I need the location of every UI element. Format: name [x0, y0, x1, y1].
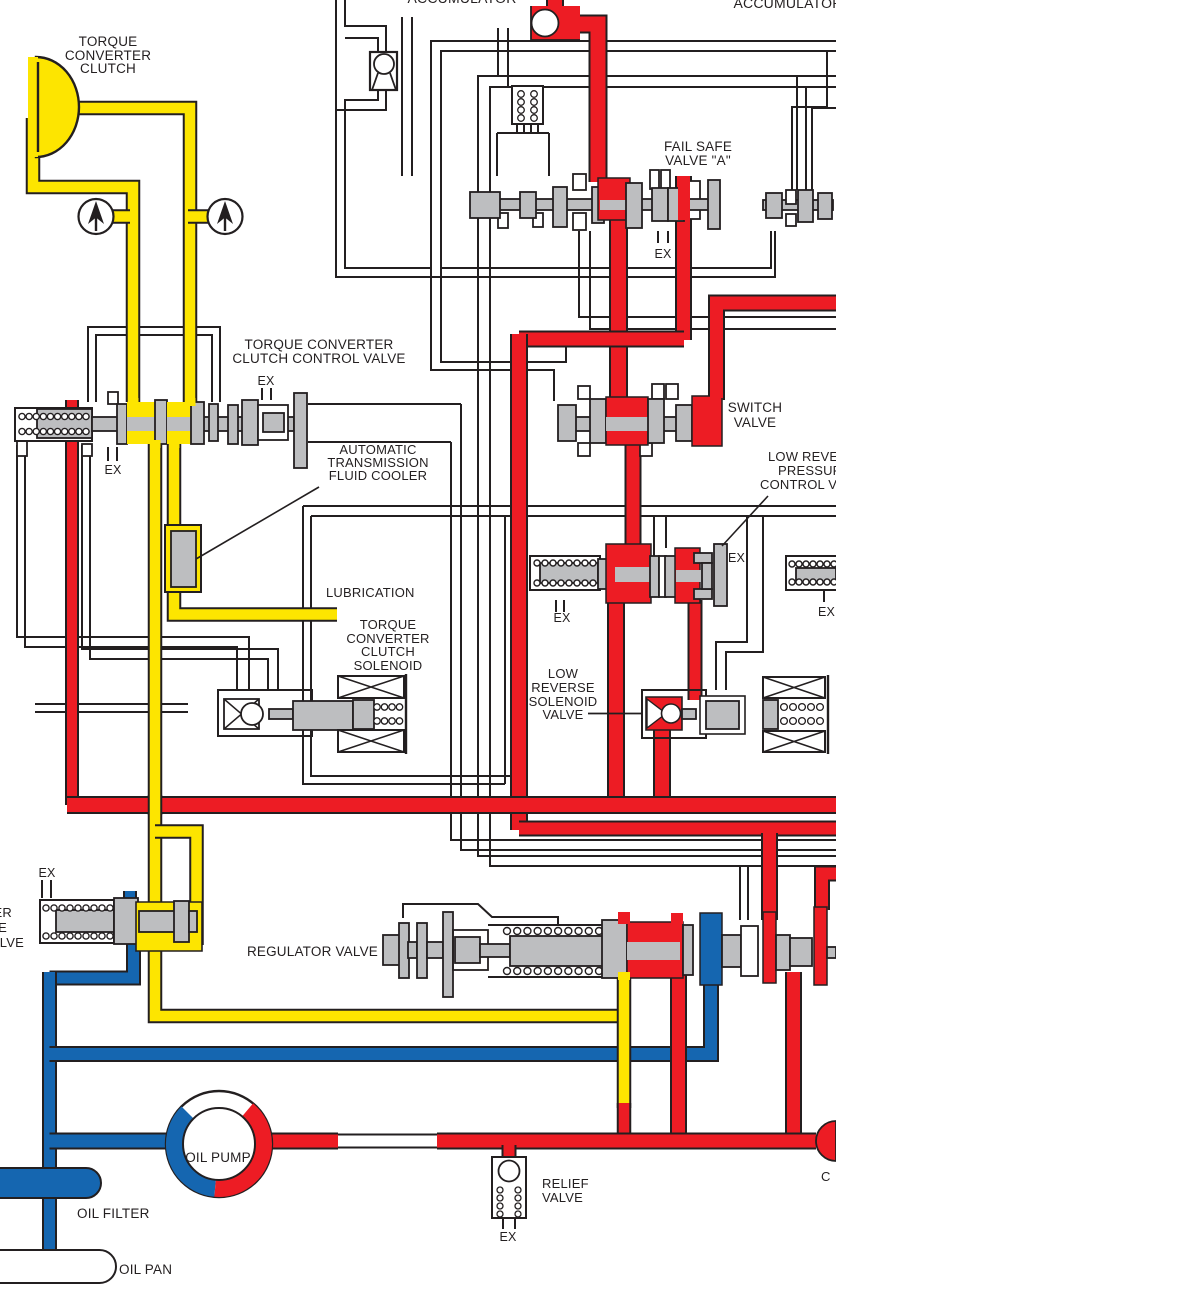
svg-text:CLUTCH: CLUTCH	[80, 61, 136, 76]
wire: red switch valve to low reverse pressure control valve	[625, 444, 642, 555]
svg-text:REGULATOR VALVE: REGULATOR VALVE	[247, 944, 378, 959]
wire: red below low reverse solenoid valve to main line	[653, 728, 671, 806]
yellow pocket 2 of TCC control valve	[167, 402, 192, 444]
wire: big box around lubrication / solenoid area	[303, 505, 836, 507]
svg-text:LUBRICATION: LUBRICATION	[326, 585, 415, 600]
svg-text:C: C	[821, 1169, 831, 1184]
yellow pocket 1 of TCC control valve	[127, 402, 155, 444]
svg-text:EX: EX	[553, 611, 571, 625]
wire: red regulator valve to bottom converter feed line	[670, 974, 687, 1141]
svg-text:LVE: LVE	[0, 935, 24, 950]
flow direction symbol (circle with up arrow)	[79, 199, 114, 234]
wire: stub to flow symbol 1	[112, 209, 130, 224]
svg-text:OIL PAN: OIL PAN	[119, 1262, 172, 1277]
valve: low reverse pressure control valve	[530, 556, 600, 590]
valve: low reverse solenoid valve	[642, 690, 706, 738]
wire: pipe from fail-safe valve down then right to edge	[579, 231, 836, 317]
wire: spring symbol legs	[516, 124, 518, 133]
leader line to cooler	[196, 487, 319, 559]
wire: hanging pipe lines down to regulator valve area	[451, 442, 836, 840]
svg-text:ER: ER	[0, 905, 12, 920]
svg-text:VALVE "A": VALVE "A"	[665, 153, 731, 168]
automatic transmission fluid cooler	[165, 525, 201, 592]
EX ticks of converter limit valve	[41, 880, 43, 898]
wire: black tick under main red line	[210, 809, 350, 812]
wire: white pipe from check ball block down left side of fail-safe area	[401, 17, 403, 176]
leader line to low reverse pressure control valve	[722, 496, 768, 546]
oil filter	[0, 1168, 101, 1198]
svg-text:VALVE: VALVE	[734, 415, 777, 430]
solenoid coil of low reverse solenoid	[763, 677, 825, 698]
blue pocket of regulator valve	[700, 913, 722, 985]
svg-text:E: E	[0, 920, 7, 935]
torque converter clutch (yellow semicircle)	[36, 57, 79, 157]
wire: yellow cooler loop from control valve	[167, 440, 182, 530]
wire: bottom converter feed red line from oil pump	[264, 1133, 338, 1150]
svg-text:LOW: LOW	[548, 666, 579, 681]
wire: pipe from red check-ball block down (jog)	[497, 28, 499, 76]
wire: red horizontal link and long vertical to 2nd bottom line	[519, 331, 684, 348]
wire: main red line pressure horizontal	[67, 796, 836, 814]
svg-text:EX: EX	[728, 551, 746, 565]
wire: pipe from low reverse solenoid up to box lines	[716, 517, 747, 690]
wire: stub to flow symbol 2	[188, 209, 209, 224]
wire: red feed to switch valve from right edge	[717, 303, 837, 400]
check ball in red block (top)	[531, 6, 580, 40]
svg-text:CLUTCH: CLUTCH	[361, 644, 415, 659]
wire: red low reverse control valve to main line	[607, 600, 625, 806]
svg-text:TORQUE: TORQUE	[79, 34, 138, 49]
wire: red from fail safe valve (right port) down	[675, 176, 692, 340]
svg-text:EX: EX	[104, 463, 122, 477]
wire: red elbow from right edge into regulator valve	[822, 874, 836, 911]
wire: port connector lines above LR control valve	[653, 517, 655, 556]
valve: pressure regulator valve	[383, 935, 400, 965]
wire: accumulator feed pipe with converter check valve bypass loop (top left)	[336, 0, 775, 277]
svg-text:FLUID COOLER: FLUID COOLER	[329, 468, 427, 483]
valve: switch valve spool	[578, 386, 590, 399]
EX ticks below LR control valve spring	[555, 600, 557, 612]
wire: stepped outline above regulator valve	[403, 904, 558, 924]
svg-text:FAIL SAFE: FAIL SAFE	[664, 139, 732, 154]
svg-text:ACCUMULATOR: ACCUMULATOR	[733, 0, 842, 11]
wire: connector from regulator valve white port up	[739, 866, 741, 920]
wire: pipes below TCC control valve going to TCC solenoid	[17, 445, 249, 690]
svg-text:OIL FILTER: OIL FILTER	[77, 1206, 150, 1221]
wire: box around TCC clutch yellow pipes above control valve	[88, 327, 220, 402]
wire: long yellow pipe from control valve down to regulator valve circuit	[155, 440, 624, 1016]
yellow frame pocket of converter limit valve	[136, 902, 202, 951]
wire: blue suction pipe from oil pan/filter to pump and regulator	[123, 891, 137, 903]
EX port of fail safe valve	[657, 231, 659, 243]
wire: yellow pipe crossing over red main line	[148, 795, 163, 815]
svg-text:CLUTCH CONTROL VALVE: CLUTCH CONTROL VALVE	[232, 351, 405, 366]
wire: red vertical at far left down from TCC control valve	[65, 400, 79, 805]
wire: white gap segment of bottom red main line	[338, 1134, 437, 1136]
yellow pipe ends over pocket outlines	[185, 398, 196, 406]
relief valve	[492, 1157, 526, 1218]
wire: red from fail safe valve down to switch valve	[609, 200, 628, 399]
svg-text:VALVE: VALVE	[542, 1190, 583, 1205]
svg-text:EX: EX	[818, 605, 836, 619]
wire: right-edge corner lines above small valve	[792, 51, 827, 190]
svg-text:OIL PUMP: OIL PUMP	[185, 1150, 251, 1165]
svg-text:EX: EX	[499, 1230, 517, 1244]
svg-text:ACCUMULATOR: ACCUMULATOR	[407, 0, 516, 6]
valve: torque converter clutch solenoid	[218, 690, 312, 736]
EX ticks of TCC control valve	[261, 388, 263, 400]
converter check valve (ball and seat symbol)	[370, 52, 397, 90]
svg-text:REVERSE: REVERSE	[531, 680, 595, 695]
converter inlet (red bulge, cut at edge)	[816, 1121, 836, 1161]
valve: accumulator spring box at right edge (cut)	[786, 556, 846, 590]
valve: torque converter clutch control valve	[108, 392, 118, 404]
wire: red low reverse control valve to solenoid valve	[688, 600, 703, 700]
svg-text:EX: EX	[38, 866, 56, 880]
wire: yellow branch to converter limit valve	[155, 832, 197, 946]
wire: second red horizontal to regulator valve	[519, 821, 836, 837]
wire: red pipe continuing yellow to bottom line	[617, 1103, 632, 1141]
svg-text:TORQUE: TORQUE	[360, 617, 417, 632]
svg-text:TORQUE CONVERTER: TORQUE CONVERTER	[245, 337, 394, 352]
valve: converter limit valve (cut label at left)	[40, 900, 114, 943]
svg-text:SWITCH: SWITCH	[728, 400, 782, 415]
svg-text:EX: EX	[257, 374, 275, 388]
svg-text:RELIEF: RELIEF	[542, 1176, 589, 1191]
oil pan	[0, 1250, 116, 1283]
svg-text:SOLENOID: SOLENOID	[354, 658, 423, 673]
wire: nested box lines around fail safe valve	[431, 41, 836, 401]
wire: stub lines right of TCC control valve end plate	[308, 403, 461, 405]
valve: fail safe valve B spool (cut at right edge)	[763, 200, 833, 210]
wire: yellow converter apply pipe from TCC to control valve (right branch)	[56, 108, 190, 402]
leader line to low reverse solenoid valve	[588, 713, 642, 715]
solenoid coil of TCC solenoid	[338, 676, 404, 698]
spring symbol (coil grid) above fail safe valve	[512, 86, 543, 124]
wire: stub to relief valve	[502, 1145, 517, 1157]
wire: red line pressure feed from accumulator (top) through check ball	[546, 0, 564, 14]
oil pump (circle with colored segments)	[166, 1091, 272, 1197]
wire: yellow pipe from TCC bottom (left branch)	[33, 118, 133, 402]
wire: red drop to regulator valve	[761, 833, 778, 920]
wire: yellow pipe regulator valve to main line (turns red)	[617, 976, 632, 1108]
svg-text:EX: EX	[654, 247, 672, 261]
flow direction symbol (circle with up arrow)	[208, 199, 243, 234]
valve: fail safe valve A spool	[573, 174, 586, 190]
svg-text:VALVE: VALVE	[543, 707, 584, 722]
